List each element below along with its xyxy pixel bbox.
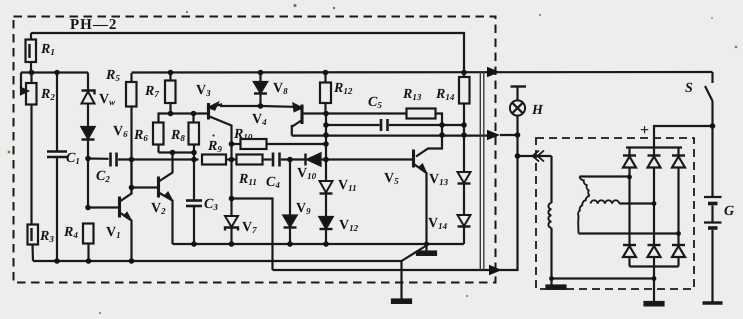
transistor V2 [132,186,159,188]
svg-text:R1: R1 [40,42,55,57]
diode V12 [320,217,333,229]
svg-text:S: S [685,81,693,96]
transistor V3 [207,103,210,120]
lamp H [511,85,527,87]
svg-text:+: + [640,122,649,139]
svg-text:C4: C4 [266,175,280,190]
svg-text:V9: V9 [296,201,311,216]
svg-text:R12: R12 [333,81,353,96]
svg-text:V7: V7 [242,220,257,235]
svg-text:V3: V3 [196,83,211,98]
switch S [711,72,713,83]
diode V10 [304,154,306,166]
svg-text:V6: V6 [113,124,128,139]
diode V14 [458,215,471,226]
svg-text:V5: V5 [384,171,399,186]
zener diode V11 [320,181,333,193]
transistor V5 [412,150,415,168]
connector arrow (field line) [489,265,502,276]
wire field ground to bridge minus [552,277,655,279]
wire rail2 (+12V internal rail) [132,71,713,74]
svg-text:R7: R7 [144,84,159,99]
diode V8 [259,73,261,83]
rectifier diode D6 (bottom right) [672,244,685,246]
svg-text:V10: V10 [297,166,317,181]
svg-text:V13: V13 [429,172,449,187]
svg-text:C2: C2 [96,169,110,184]
stator winding [580,175,630,177]
resistor R4 [83,224,94,244]
wire C5 line [326,124,380,126]
rectifier diode D4 (bottom left) [623,244,636,246]
svg-text:V11: V11 [338,178,357,193]
svg-text:R9: R9 [207,139,222,154]
resistor R12 [324,73,326,83]
wire rail C feedback link from V7 node [232,199,273,271]
regulator enclosure dashed box PH-2 [14,17,496,283]
node A line R1-R2 junction to zener column [21,71,88,73]
ground (below regulator box) [392,300,411,303]
resistor R8 [192,114,194,123]
capacitor C1 [56,73,58,152]
resistor R5 [130,73,132,82]
wire bottom rail B [33,260,402,262]
rectifier diode D3 (top right) [677,148,679,156]
wire lamp line (V4 emitter output) [292,135,497,137]
zener diode Vw [87,73,89,91]
wire R6 R8 top line [159,114,209,123]
capacitor C5 [380,119,383,131]
svg-text:R4: R4 [63,225,78,240]
svg-text:РН—2: РН—2 [70,17,117,33]
wire bridge plus output [654,126,713,148]
svg-text:R5: R5 [105,68,120,83]
svg-text:R10: R10 [233,127,253,142]
svg-text:H: H [531,103,544,118]
rectifier diode D1 (top left) [628,148,630,156]
transistor V1 [88,206,120,208]
ground (generator minus) [645,302,664,305]
resistor R6 [153,123,164,145]
svg-text:R11: R11 [238,172,257,187]
generator enclosure dashed box [536,138,694,289]
zener diode V13 [458,172,471,183]
wire top rail from R1 to right side [31,33,464,77]
svg-text:C1: C1 [66,151,80,166]
svg-text:R3: R3 [39,229,54,244]
resistor R2 (with wiper arm) [20,73,22,89]
diode V6 [82,127,95,139]
ground (field winding) [550,279,552,286]
svg-text:C3: C3 [204,197,218,212]
rectifier bridge bottom rail [630,265,679,267]
wire rail C (field output) [273,269,498,271]
svg-text:V1: V1 [106,225,121,240]
svg-text:R8: R8 [170,128,185,143]
battery G [711,126,713,197]
capacitor C4 [272,153,275,167]
zener diode V7 [230,160,232,217]
ground (V5 emitter) [425,244,427,252]
wire stem to external ground [400,261,402,300]
diode V9 [289,160,291,216]
node X vertical (R12 / V11 / V12 column) [325,114,327,182]
capacitor C3 [193,160,195,201]
resistor R3 [28,225,39,245]
svg-text:V8: V8 [273,81,288,96]
wire field line to generator [518,155,552,157]
resistor R1 [30,33,32,40]
rectifier diode D5 (bottom mid) [648,244,661,246]
resistor R7 [169,73,171,81]
svg-text:V12: V12 [339,218,359,233]
svg-text:R2: R2 [40,87,55,102]
ground (battery minus) [703,301,723,305]
svg-text:Vw: Vw [99,92,116,107]
wire bridge minus to ground [653,267,655,303]
svg-text:V4: V4 [252,112,267,127]
resistor R14 [463,76,465,78]
svg-text:V14: V14 [428,216,448,231]
rectifier bridge top rail [626,146,682,148]
connector chevrons on generator border [538,151,545,162]
svg-text:R13: R13 [402,87,422,102]
svg-text:R14: R14 [435,87,455,102]
svg-text:R6: R6 [133,128,148,143]
connector arrow (lamp line) [487,130,500,141]
connector arrow (rail2 out) [487,67,500,78]
double bus lines at regulator edge [479,72,481,270]
rectifier diode D2 (top mid) [653,148,655,156]
resistor R9 [202,155,226,165]
wire R6 R8 bottom line [159,151,195,153]
svg-text:V2: V2 [151,201,166,216]
wire L1 collector line V4 to R13 [302,112,407,114]
resistor R13 [407,109,436,119]
wire rail A (inner ground rail) [173,243,465,245]
wire rail B to ground diagonal [402,246,427,262]
transistor V4 [300,105,303,125]
inductor field winding [550,156,552,203]
svg-text:C5: C5 [368,95,382,110]
wire lamp vertical / field node [500,116,518,135]
resistor R11 [237,155,263,165]
svg-text:G: G [724,204,734,219]
resistor R10 [232,143,241,145]
capacitor C2 [88,157,109,160]
